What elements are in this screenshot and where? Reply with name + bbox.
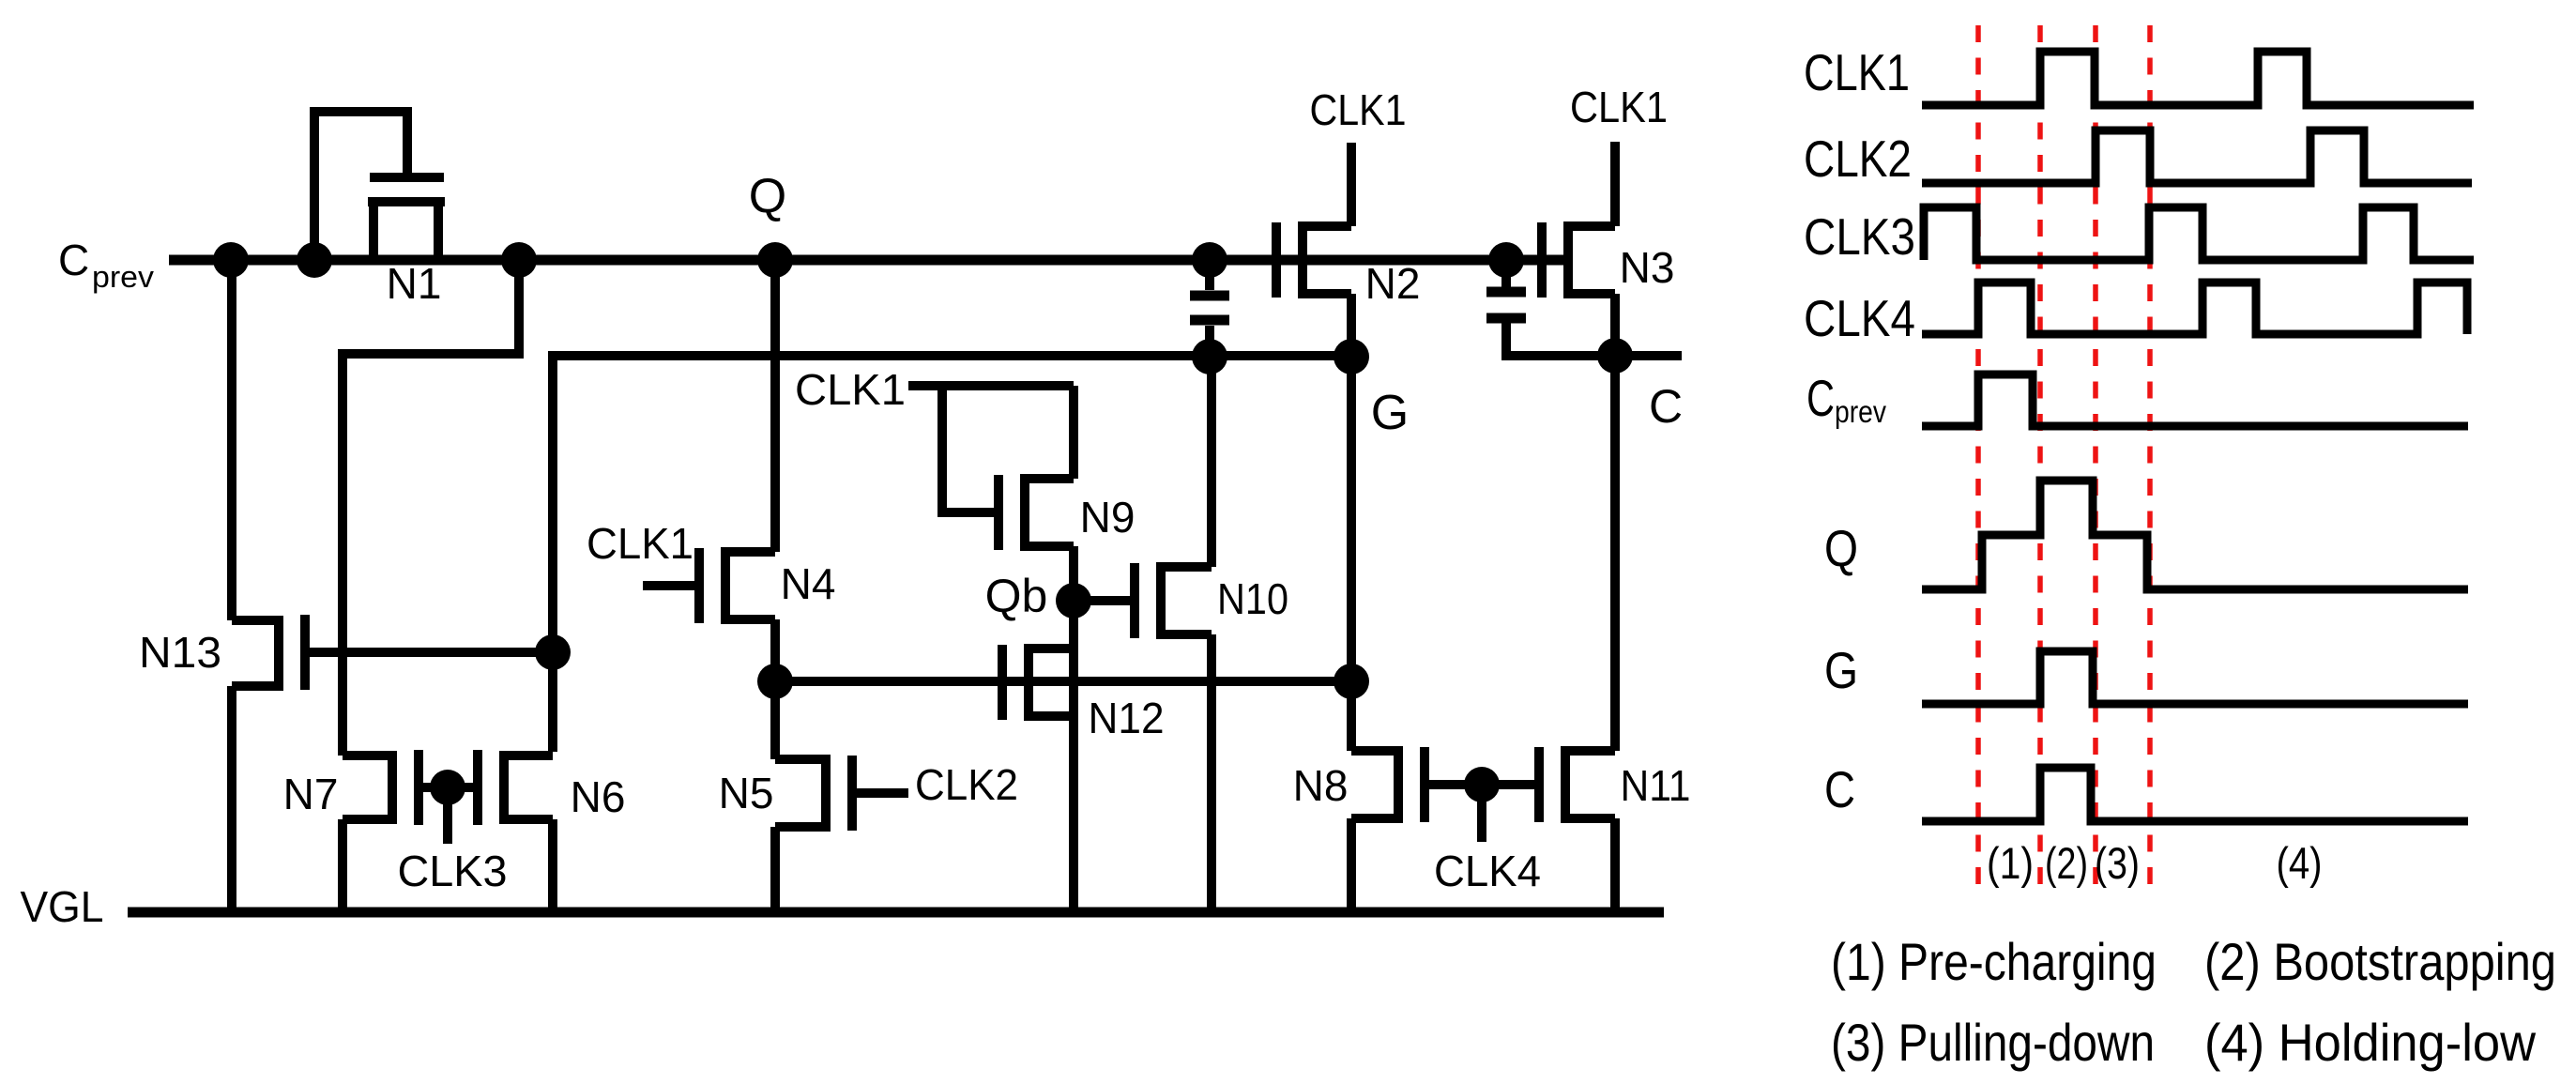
wire Qb gate lead xyxy=(1074,596,1135,605)
wire N2 drain to CLK1 xyxy=(1347,143,1356,226)
node dot N4 source xyxy=(757,664,793,699)
transistor N5 xyxy=(775,756,852,831)
wire N1 gate loop xyxy=(314,112,407,260)
waveform C xyxy=(1922,768,2468,821)
waveform Cprev xyxy=(1922,374,2468,426)
svg-text:C: C xyxy=(1806,369,1835,427)
wire N9 gate loop xyxy=(942,386,998,512)
svg-text:N10: N10 xyxy=(1217,574,1288,623)
svg-text:C: C xyxy=(1824,760,1855,818)
wire N5 gate lead xyxy=(852,788,908,798)
node dot N13 gate xyxy=(535,634,571,670)
svg-text:(2): (2) xyxy=(2045,838,2088,888)
transistor N11 xyxy=(1539,747,1615,822)
svg-text:(2) Bootstrapping: (2) Bootstrapping xyxy=(2204,932,2556,991)
svg-text:C: C xyxy=(58,236,89,284)
wire N6 source to VGL xyxy=(548,819,557,912)
wire N10 drain up to G rail xyxy=(1207,357,1216,567)
waveform Q xyxy=(1922,481,2468,589)
transistor N8 xyxy=(1351,747,1425,822)
wire N4 gate lead xyxy=(643,581,699,590)
wire N13 gate lead xyxy=(305,648,553,657)
svg-text:G: G xyxy=(1371,386,1409,440)
wire N3 source down xyxy=(1610,294,1620,356)
svg-text:CLK1: CLK1 xyxy=(1804,43,1910,101)
node dot cap3 top xyxy=(1488,242,1524,278)
wire N3 drain to CLK1 xyxy=(1610,142,1620,226)
node dot CLK4 xyxy=(1464,767,1500,802)
svg-text:(4): (4) xyxy=(2277,838,2323,888)
transistor N12 xyxy=(1002,645,1074,720)
svg-text:(3) Pulling-down: (3) Pulling-down xyxy=(1831,1013,2155,1072)
node dot C xyxy=(1597,338,1633,374)
transistor N2 xyxy=(1276,222,1351,298)
svg-text:N3: N3 xyxy=(1620,243,1675,292)
svg-text:N1: N1 xyxy=(387,259,442,308)
wire N5 source to VGL xyxy=(770,827,780,912)
wire N7 source to VGL xyxy=(338,819,347,912)
wire node A horizontal xyxy=(775,677,1351,686)
wire N2 source down xyxy=(1347,294,1356,357)
capacitor C3 bottom wire to C node xyxy=(1506,323,1682,356)
svg-text:N12: N12 xyxy=(1089,694,1165,742)
wire N5 drain xyxy=(770,681,780,759)
svg-text:G: G xyxy=(1824,641,1858,699)
wire left vertical (Cprev to N13 drain) xyxy=(227,260,236,620)
waveform CLK3 xyxy=(1924,207,2474,260)
wire N6 drain up to node xyxy=(548,650,557,752)
node dot cap2 top xyxy=(1192,242,1227,278)
waveform CLK2 xyxy=(1922,130,2472,183)
wire CLK4 stub xyxy=(1477,785,1486,842)
svg-text:CLK1: CLK1 xyxy=(1570,83,1668,131)
capacitor C3 top stub xyxy=(1501,260,1511,287)
node dot N1 source xyxy=(501,242,537,278)
svg-text:CLK3: CLK3 xyxy=(398,847,508,895)
wire G branch left xyxy=(553,356,1351,650)
waveform G xyxy=(1922,651,2468,704)
dashed phase line 2 xyxy=(2037,25,2043,896)
svg-text:(3): (3) xyxy=(2095,838,2140,888)
dashed phase line 3 xyxy=(2093,25,2098,896)
svg-text:CLK2: CLK2 xyxy=(915,760,1018,809)
wire VGL rail xyxy=(128,908,1664,918)
svg-text:CLK2: CLK2 xyxy=(1804,130,1912,188)
dashed phase line 4 xyxy=(2147,25,2153,896)
svg-text:Q: Q xyxy=(749,169,786,223)
svg-text:CLK1: CLK1 xyxy=(1310,85,1407,134)
wire CLK4 gate lead xyxy=(1425,780,1539,789)
capacitor C3 plates xyxy=(1486,287,1526,298)
node dot CLK3 xyxy=(430,770,465,805)
transistor N13 xyxy=(232,615,305,690)
svg-text:N4: N4 xyxy=(781,559,836,608)
transistor N6 xyxy=(478,750,553,825)
wire CLK1 lead at N9 xyxy=(908,381,1074,390)
transistor N1 (diode-connected) xyxy=(368,177,445,260)
transistor N10 xyxy=(1135,563,1212,638)
svg-text:C: C xyxy=(1649,380,1683,433)
node dot Q xyxy=(757,242,793,278)
svg-text:N6: N6 xyxy=(571,772,626,821)
svg-text:CLK4: CLK4 xyxy=(1434,847,1541,895)
svg-text:Q: Q xyxy=(1824,519,1858,577)
svg-text:N5: N5 xyxy=(719,769,774,817)
svg-text:N2: N2 xyxy=(1365,259,1421,308)
capacitor C2 plates xyxy=(1190,291,1229,301)
svg-text:N11: N11 xyxy=(1621,761,1691,810)
wire CLK3 gate lead xyxy=(419,783,478,792)
svg-text:(1) Pre-charging: (1) Pre-charging xyxy=(1831,932,2157,991)
svg-text:CLK1: CLK1 xyxy=(795,365,906,414)
wire G vertical xyxy=(1347,357,1356,751)
waveform CLK1 xyxy=(1922,52,2474,105)
wire C vertical xyxy=(1610,356,1620,751)
wire N13 source to VGL xyxy=(227,686,236,912)
node dot G xyxy=(1334,339,1369,374)
wire N11 source to VGL xyxy=(1610,818,1620,912)
svg-text:prev: prev xyxy=(1835,394,1886,429)
waveform CLK4 xyxy=(1922,282,2467,334)
wire CLK3 stub xyxy=(443,787,452,844)
capacitor C2 bottom stub xyxy=(1205,326,1214,357)
wire N9 drain xyxy=(1069,386,1078,479)
node dot cap2 bottom / G rail xyxy=(1192,339,1227,374)
transistor N3 xyxy=(1542,222,1615,298)
svg-text:(1): (1) xyxy=(1987,838,2034,888)
node dot Cprev-1 xyxy=(213,242,249,278)
svg-text:N8: N8 xyxy=(1293,761,1349,810)
transistor N7 xyxy=(343,750,419,825)
svg-text:VGL: VGL xyxy=(21,882,104,931)
transistor N4 xyxy=(699,548,775,623)
svg-text:N9: N9 xyxy=(1080,493,1136,542)
transistor N9 xyxy=(998,475,1074,550)
wire N4 source down xyxy=(770,619,780,681)
svg-text:CLK1: CLK1 xyxy=(587,519,694,568)
svg-text:(4) Holding-low: (4) Holding-low xyxy=(2204,1013,2537,1072)
svg-text:N13: N13 xyxy=(139,628,221,677)
svg-text:CLK4: CLK4 xyxy=(1804,289,1915,347)
svg-text:N7: N7 xyxy=(283,770,339,818)
wire N1 source branch down xyxy=(343,260,519,756)
svg-text:Qb: Qb xyxy=(985,570,1048,622)
wire Qb vertical xyxy=(1069,546,1078,912)
dashed phase line 1 xyxy=(1975,25,1981,896)
node dot Qb xyxy=(1056,583,1091,618)
node dot node A right xyxy=(1334,664,1369,699)
wire Q vertical xyxy=(770,260,780,552)
wire N8 source to VGL xyxy=(1347,818,1356,912)
capacitor C2 top stub xyxy=(1205,260,1214,290)
node dot Cprev-2 xyxy=(297,242,332,278)
svg-text:prev: prev xyxy=(92,260,154,294)
wire Cprev/Q rail xyxy=(169,255,1568,266)
svg-text:CLK3: CLK3 xyxy=(1804,207,1915,266)
wire N10 source to VGL xyxy=(1207,634,1216,912)
